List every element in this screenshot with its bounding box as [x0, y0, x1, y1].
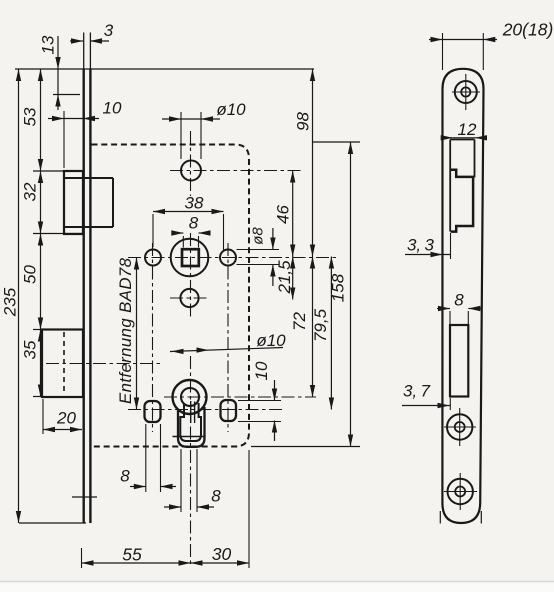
svg-text:8: 8	[120, 467, 130, 486]
dimension 46	[274, 171, 296, 257]
svg-text:38: 38	[185, 194, 204, 213]
dimension 20 deadbolt protrusion	[43, 399, 82, 434]
svg-text:10: 10	[252, 361, 271, 380]
svg-text:55: 55	[122, 545, 142, 565]
svg-text:3: 3	[104, 21, 114, 40]
right &#216;8 hole	[220, 250, 236, 266]
dimension 235 overall	[1, 69, 22, 523]
svg-text:8: 8	[189, 214, 199, 233]
top hole &#216;10	[181, 161, 201, 181]
dimension 53	[21, 69, 44, 171]
dimension 8 keyhole slot width	[164, 449, 221, 512]
spindle hub circle	[171, 239, 209, 277]
latch recess outline side view	[450, 140, 474, 232]
deadbolt hidden edge (dashed)	[63, 332, 65, 394]
svg-text:98: 98	[294, 112, 313, 131]
faceplate top edge / extension line	[15, 68, 314, 70]
keyhole outer bit extension	[173, 407, 205, 447]
svg-text:20: 20	[56, 409, 76, 428]
dimension 8 left side hole width	[120, 424, 176, 492]
dimension 10 latch protrusion	[48, 99, 122, 169]
svg-text:46: 46	[274, 205, 293, 224]
dimension 8 square hole	[171, 214, 210, 248]
svg-text:3, 7: 3, 7	[403, 382, 431, 401]
top screw hole position tick on faceplate	[53, 94, 80, 96]
svg-text:3, 3: 3, 3	[407, 236, 435, 255]
svg-text:35: 35	[21, 340, 40, 359]
vertical centerline right hole column	[227, 243, 229, 432]
dimension 3 faceplate thickness	[70, 21, 114, 44]
left &#216;8 hole	[145, 250, 161, 266]
square spindle hole 8x8	[182, 249, 199, 266]
dimension 38	[153, 194, 224, 251]
svg-text:12: 12	[458, 120, 477, 139]
horizontal centerline side-hole row	[128, 409, 283, 411]
left side rounded hole 8x10	[145, 401, 161, 422]
horizontal centerline spindle row	[128, 257, 337, 259]
svg-text:32: 32	[21, 182, 40, 201]
dimension 3,3	[405, 233, 451, 259]
keyhole inner circle	[181, 388, 199, 406]
svg-text:158: 158	[329, 273, 348, 302]
horizontal centerline small hole	[170, 297, 209, 299]
extension tick y329.5	[33, 329, 43, 331]
right side rounded hole 8x10	[221, 400, 237, 421]
bottom corner ticks side view	[440, 511, 481, 524]
svg-text:20(18): 20(18)	[502, 20, 554, 40]
vertical centerline left hole column	[152, 243, 154, 432]
svg-text:Entfernung BAD78: Entfernung BAD78	[116, 257, 135, 404]
lock body hidden outline (dashed rounded rect)	[92, 145, 250, 447]
svg-text:72: 72	[290, 312, 309, 331]
middle screw hole side view	[444, 408, 476, 446]
dimension 20(18)	[429, 20, 553, 43]
dimension &#216;8 side holes	[237, 227, 280, 286]
dimension 8 deadbolt recess width	[437, 291, 481, 325]
svg-text:235: 235	[1, 287, 20, 317]
dimension 35	[21, 330, 44, 397]
keyhole outer circle	[173, 380, 207, 414]
extension tick y171	[33, 170, 83, 172]
keyhole inner slot	[180, 401, 201, 441]
faceplate bottom edge / extension line	[19, 522, 86, 524]
top screw hole side view	[452, 74, 480, 110]
small hole below spindle	[180, 289, 198, 307]
dimension 12	[441, 120, 487, 141]
vertical centerline through spindle and lower hole	[190, 233, 192, 320]
svg-text:10: 10	[103, 99, 122, 118]
svg-text:79,5: 79,5	[311, 308, 330, 342]
vertical centerline through top hole	[190, 131, 192, 196]
horizontal centerline keyhole row	[164, 396, 316, 398]
horizontal centerline top hole	[170, 170, 302, 172]
svg-text:8: 8	[454, 291, 464, 310]
dimension 13	[39, 35, 61, 110]
latch bolt head	[64, 171, 83, 234]
dimension 98	[294, 69, 316, 257]
svg-text:ø8: ø8	[250, 227, 267, 245]
dimension 10 side hole height	[238, 361, 281, 441]
dimension &#216;10 keyhole	[170, 331, 286, 354]
deadbolt head	[42, 330, 83, 398]
vertical centerline through keyhole down to dimension line	[190, 356, 192, 567]
svg-text:13: 13	[39, 35, 58, 54]
bottom screw hole side view	[444, 473, 477, 510]
latch bolt body through faceplate	[65, 178, 114, 227]
dimension &#216;10 top hole	[162, 100, 246, 159]
dimension 79,5	[311, 257, 334, 410]
dimension 55 and 30	[82, 450, 250, 568]
dimension 158	[251, 142, 360, 447]
deadbolt recess side view	[450, 325, 468, 397]
svg-text:8: 8	[211, 487, 221, 506]
scan artifact light line	[0, 582, 554, 592]
extension tick y396.5	[33, 396, 43, 398]
dimension 32	[21, 171, 44, 234]
latch cross-section (thick)	[451, 170, 474, 232]
side view extension lines up	[443, 33, 484, 70]
dimension 3,7	[402, 382, 450, 411]
svg-text:53: 53	[21, 107, 40, 126]
label Entfernung BAD78 with dimension line	[116, 257, 139, 409]
svg-text:ø10: ø10	[216, 100, 246, 119]
faceplate front view (double vertical line)	[84, 33, 91, 524]
extension tick y233.5	[33, 233, 84, 235]
deadbolt centerline	[46, 363, 160, 365]
svg-text:50: 50	[21, 265, 40, 284]
faceplate side view outline (stadium)	[442, 69, 483, 523]
dimension 50	[21, 234, 44, 330]
dimension 21,5	[275, 257, 295, 300]
svg-text:30: 30	[212, 544, 232, 564]
dimension 72	[290, 257, 315, 398]
bottom screw hole position tick on faceplate	[72, 496, 97, 498]
